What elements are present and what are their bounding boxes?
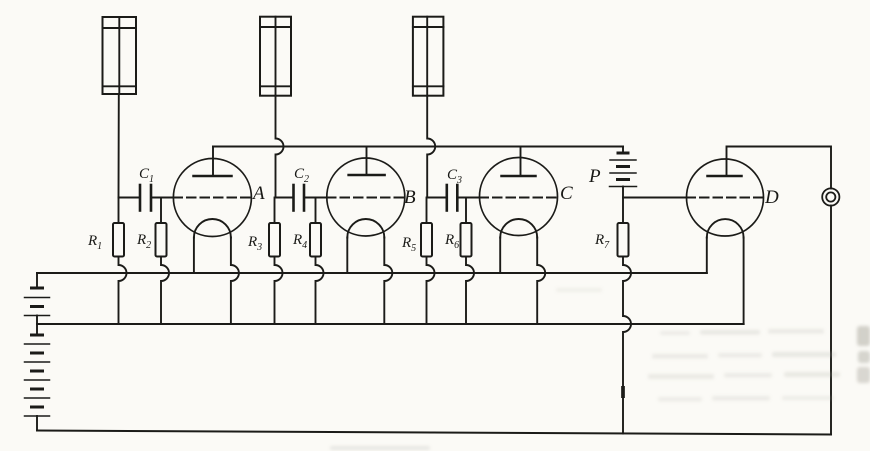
bus2: negative bus — [37, 323, 744, 325]
junction blob on R7 wire — [621, 388, 625, 396]
wire battery B to bus3 — [36, 416, 38, 431]
triode D grid (dashed) — [687, 197, 764, 199]
wire below R7 with hops over bus1 and bus2 — [623, 257, 631, 434]
wire battery A to battery B (bus2 tap) — [36, 316, 38, 336]
bus1: filament return bus — [37, 272, 707, 274]
triode D filament — [707, 219, 744, 237]
resistor R4 — [310, 223, 321, 257]
wire below R4 with hop over bus1 — [316, 257, 324, 325]
wire P node to tube D grid — [623, 197, 687, 199]
resistor R6 — [461, 223, 472, 257]
resistor R3 — [269, 223, 280, 257]
wire grid node stage3 down to R5 — [426, 198, 428, 224]
wire R6 drop from grid line — [465, 198, 467, 224]
svg-text:B: B — [404, 187, 416, 208]
wire T2 down with hop over plate bus — [276, 96, 284, 198]
wire grid node stage2 down to R3 — [274, 198, 276, 224]
wire below R3 with hop over bus1 — [275, 257, 283, 325]
wire C1 to tube A grid — [151, 197, 174, 199]
triode C envelope — [480, 158, 558, 236]
wire tube A filament left leg to bus1 — [193, 238, 195, 274]
wire below R6 with hop over bus1 — [466, 257, 474, 325]
wire tube C filament right leg with hop over bus1 — [537, 238, 545, 325]
capacitor C2 — [294, 185, 305, 211]
wire grid node to C3 — [427, 197, 447, 199]
triode B grid (dashed) — [327, 197, 408, 199]
svg-text:C: C — [560, 183, 573, 204]
wire tube D filament right leg to bus2 end — [743, 238, 745, 325]
wire C2 to tube B grid — [304, 197, 327, 199]
wire tube D plate to output — [727, 147, 832, 189]
triode B envelope — [327, 158, 405, 236]
resistor R7 — [618, 223, 629, 257]
transformer T1 — [103, 17, 137, 94]
svg-text:A: A — [251, 183, 265, 204]
wire tube B filament left leg to bus1 — [346, 238, 348, 274]
triode D envelope — [687, 159, 764, 236]
plate supply bus (top) — [213, 146, 623, 148]
svg-text:P: P — [588, 166, 601, 187]
wire grid node to C1 — [119, 197, 141, 199]
transformer T3 — [413, 17, 444, 96]
wire bus1 to battery top — [36, 273, 38, 288]
wire R4 drop from grid line — [315, 198, 317, 224]
resistor R2 — [156, 223, 167, 257]
wire output terminal down to bottom bus — [830, 206, 832, 435]
wire battery P to R7 — [622, 187, 624, 224]
bus3: bottom HT negative bus — [37, 431, 831, 435]
battery P — [610, 153, 637, 187]
wire below R2 with hop over bus1 — [161, 257, 169, 325]
triode B plate — [349, 174, 385, 177]
battery B (plate battery) — [25, 335, 50, 416]
triode A plate — [194, 175, 232, 178]
wire T3 down with hop over plate bus — [427, 96, 435, 198]
triode C grid (dashed) — [480, 197, 559, 199]
wire tube A plate lead — [212, 147, 214, 177]
wire tube B plate lead — [366, 147, 368, 176]
resistor R1 — [113, 223, 124, 257]
wire R2 drop from grid line — [160, 198, 162, 224]
triode A grid (dashed) — [174, 197, 254, 199]
wire grid node to C2 — [276, 197, 294, 199]
wire tube D filament left leg to bus1 end — [706, 238, 708, 274]
transformer T2 — [260, 17, 291, 96]
triode A filament — [194, 219, 231, 238]
triode C plate — [502, 175, 536, 178]
svg-text:D: D — [764, 187, 779, 208]
wire bus to battery P — [622, 147, 624, 154]
wire tube B filament right leg with hop over bus1 — [384, 238, 392, 325]
wire C3 to tube C grid — [457, 197, 479, 199]
wire tube C filament left leg to bus1 — [499, 238, 501, 274]
triode C filament — [500, 219, 537, 238]
triode B filament — [347, 219, 384, 238]
wire below R1 with hop over bus1 — [119, 257, 127, 325]
wire tube A filament right leg with hop over bus1 — [231, 238, 239, 325]
battery A (filament battery) — [25, 288, 50, 316]
wire grid node stage1 down to R1 — [118, 198, 120, 224]
triode A envelope — [173, 159, 251, 237]
wire tube C plate lead — [520, 147, 522, 177]
resistor R5 — [421, 223, 432, 257]
triode D plate — [708, 175, 742, 178]
capacitor C3 — [447, 185, 458, 211]
output terminal — [822, 188, 839, 205]
capacitor C1 — [140, 185, 151, 211]
wire T1 to grid node stage1 — [118, 94, 120, 198]
wire below R5 with hop over bus1 — [427, 257, 435, 325]
